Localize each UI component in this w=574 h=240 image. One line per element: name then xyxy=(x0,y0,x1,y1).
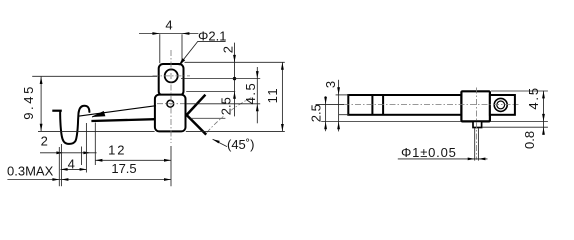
cylinder body xyxy=(348,95,461,115)
band line 1 xyxy=(371,95,373,115)
centerline horizontal lower hole xyxy=(157,103,185,105)
extension line bottom left xyxy=(38,130,155,132)
svg-text:3: 3 xyxy=(323,81,338,88)
ring inner xyxy=(497,101,505,109)
svg-text:4: 4 xyxy=(165,17,172,32)
dimension 11 xyxy=(265,62,284,131)
extension arm start xyxy=(94,123,96,166)
ring outer xyxy=(494,98,507,111)
hook lip xyxy=(52,110,62,112)
svg-text:12: 12 xyxy=(108,143,126,158)
extension line bottom right xyxy=(186,130,285,132)
svg-text:2.5: 2.5 xyxy=(219,97,234,115)
svg-text:4.5: 4.5 xyxy=(526,86,541,109)
centerline horizontal top hole xyxy=(153,75,191,77)
svg-text:Φ1±0.05: Φ1±0.05 xyxy=(401,145,457,160)
svg-text:(45˚): (45˚) xyxy=(227,137,254,152)
dimension 4 top xyxy=(139,17,198,63)
extension cylinder bottom left xyxy=(339,114,349,116)
dimension 2.5 right view xyxy=(308,96,327,131)
arm upper thin line xyxy=(78,106,156,117)
dimension 9.45 xyxy=(21,77,42,132)
extension hook right xyxy=(81,147,83,166)
extension line body top right xyxy=(185,61,285,63)
body upper block xyxy=(159,64,184,96)
dimension 0.8 right view xyxy=(522,127,545,149)
extension cylinder top left xyxy=(336,94,349,96)
svg-text:2: 2 xyxy=(41,134,48,149)
centerline vertical body xyxy=(170,50,172,143)
svg-text:9.45: 9.45 xyxy=(21,84,36,120)
extension knob right xyxy=(85,123,87,173)
extension line hole-center right xyxy=(181,78,260,80)
extension block bottom right xyxy=(491,121,548,123)
pin xyxy=(473,121,482,127)
svg-text:0.8: 0.8 xyxy=(522,131,537,149)
dimension 2 right chain xyxy=(220,43,236,117)
stub xyxy=(490,95,515,115)
dimension 4 bottom xyxy=(61,156,87,171)
svg-text:11: 11 xyxy=(265,87,280,104)
label (45) with leader xyxy=(213,137,255,152)
svg-text:0.3MAX: 0.3MAX xyxy=(7,164,54,179)
dimension 3 right view xyxy=(323,80,340,132)
extension centerline bottom xyxy=(170,146,172,186)
label diameter 1 +-0.05 xyxy=(398,145,488,160)
svg-text:17.5: 17.5 xyxy=(111,161,136,176)
dimension 17.5 xyxy=(7,161,171,181)
svg-text:4.5: 4.5 xyxy=(243,82,258,105)
extension axis left xyxy=(316,104,344,106)
extension pair hook wall xyxy=(59,144,61,186)
extension pin right edge xyxy=(477,128,479,160)
dimension 12 xyxy=(95,143,171,162)
block xyxy=(461,91,490,121)
block vertical centerline xyxy=(475,88,477,160)
extension block bottom long xyxy=(321,121,461,123)
extension block top right xyxy=(491,90,548,92)
extension line hole-center left xyxy=(32,75,157,77)
arm lower thick line xyxy=(91,119,154,121)
hole lower xyxy=(167,100,174,107)
arm crimp wedge xyxy=(92,112,105,118)
band line 2 xyxy=(382,95,384,115)
svg-text:2.5: 2.5 xyxy=(308,104,323,122)
extension pin bottom right xyxy=(482,126,548,128)
dimension 2.5 text xyxy=(219,96,234,117)
lead bend centerline dash-dot xyxy=(207,98,252,133)
extension line step right xyxy=(186,91,235,93)
dimension 4.5 right view xyxy=(526,86,545,135)
body lower block xyxy=(155,95,186,132)
label diameter 2.1 with leader xyxy=(179,29,227,66)
dimension 2 bottom xyxy=(40,134,97,155)
hole 2.1 top xyxy=(165,69,178,82)
extension pin left edge xyxy=(474,128,476,160)
extension line lower-hole right xyxy=(187,103,261,105)
svg-text:2: 2 xyxy=(220,46,235,53)
lead upper xyxy=(186,95,205,116)
45deg reference line xyxy=(191,117,226,119)
dimension 4.5 xyxy=(243,67,259,123)
axis centerline xyxy=(344,104,519,106)
lead lower xyxy=(186,114,206,134)
hook cup outline xyxy=(60,106,89,144)
